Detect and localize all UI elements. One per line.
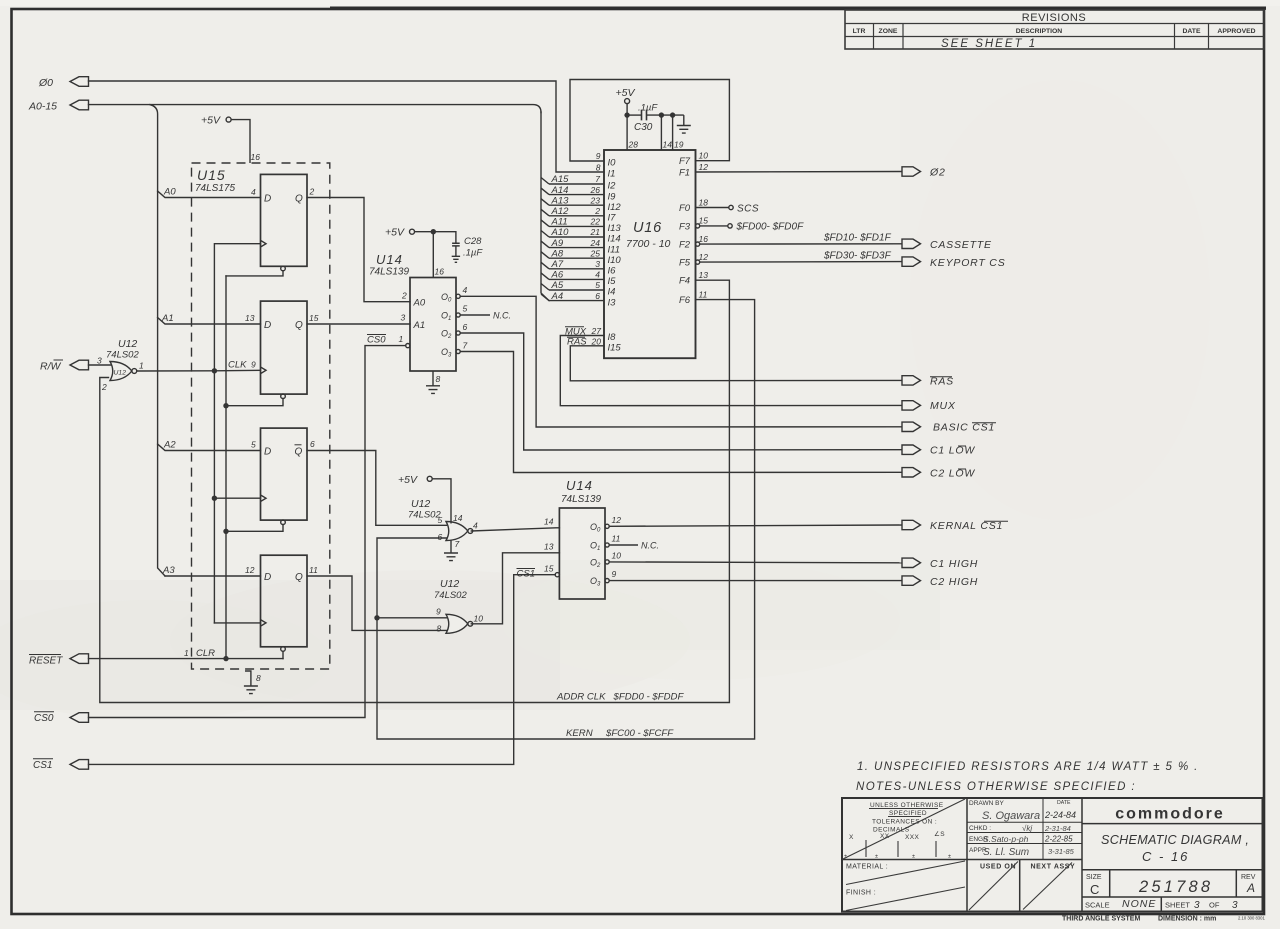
svg-text:KERN $FC00 - $FCFF: KERN $FC00 - $FCFF: [566, 728, 674, 739]
decoder U14b 74LS139: [544, 478, 621, 599]
wire FF2 clear: [226, 399, 283, 406]
svg-text:FINISH :: FINISH :: [846, 890, 876, 897]
svg-text:7700 - 10: 7700 - 10: [626, 238, 671, 250]
svg-text:DRAWN BY: DRAWN BY: [969, 800, 1004, 807]
third angle note: [1062, 916, 1265, 923]
svg-text:16: 16: [251, 152, 261, 162]
connector C1 HIGH output: [902, 558, 978, 570]
svg-text:LTR: LTR: [853, 28, 866, 35]
svg-text:7: 7: [463, 341, 468, 351]
U14b O1 N.C. stub: [609, 541, 659, 551]
svg-text:A12: A12: [551, 206, 570, 217]
svg-text:I7: I7: [608, 213, 617, 224]
svg-text:.1µF: .1µF: [638, 103, 658, 114]
svg-text:74LS02: 74LS02: [106, 350, 139, 361]
wire U14b O0 to KERNAL CS: [609, 525, 902, 526]
svg-text:+5V: +5V: [398, 474, 418, 486]
U15 CLR pin 1 label: [184, 648, 215, 659]
wire RESET to CLR: [89, 658, 284, 660]
svg-text:A15: A15: [551, 174, 570, 185]
svg-text:C30: C30: [634, 122, 653, 133]
svg-text:2: 2: [594, 206, 600, 216]
svg-text:BASIC CS1: BASIC CS1: [933, 422, 995, 434]
svg-text:I6: I6: [608, 266, 617, 277]
label R/W: [40, 360, 63, 373]
wire gate1 out to U14b pin14: [471, 528, 559, 531]
wire FF1 Q to U14a A0: [307, 198, 410, 302]
connector CS1 input: [70, 760, 89, 770]
flip-flop U15c: [251, 428, 315, 524]
svg-text:13: 13: [245, 313, 255, 323]
svg-text:25: 25: [590, 248, 601, 258]
svg-text:9: 9: [612, 569, 617, 579]
svg-text:A3: A3: [162, 565, 175, 576]
svg-text:CASSETTE: CASSETTE: [930, 239, 992, 251]
tolerance block: [842, 799, 965, 911]
svg-text:$FD10- $FD1F: $FD10- $FD1F: [823, 233, 892, 244]
svg-text:I9: I9: [608, 191, 617, 202]
wire A0-15 bus horizontal: [89, 105, 542, 113]
svg-text:N.C.: N.C.: [641, 541, 659, 551]
svg-text:F7: F7: [679, 156, 691, 167]
connector RAS output: [902, 376, 954, 388]
svg-text:8: 8: [436, 374, 441, 384]
svg-text:F2: F2: [679, 240, 691, 251]
svg-text:A10: A10: [551, 227, 570, 238]
label RESET: [29, 655, 63, 667]
svg-text:U14: U14: [566, 478, 593, 493]
svg-text:DATE: DATE: [1183, 28, 1201, 35]
svg-text:SCS: SCS: [737, 204, 759, 215]
svg-text:74LS02: 74LS02: [434, 590, 467, 601]
svg-text:THIRD ANGLE SYSTEM: THIRD ANGLE SYSTEM: [1062, 916, 1140, 923]
svg-text:A: A: [1246, 881, 1255, 895]
svg-text:S.Sato-p-ph: S.Sato-p-ph: [983, 834, 1029, 844]
svg-text:6: 6: [463, 322, 468, 332]
svg-text:D: D: [264, 320, 271, 331]
decoder U14a 74LS139: [369, 252, 468, 384]
svg-text:SCHEMATIC DIAGRAM ,: SCHEMATIC DIAGRAM ,: [1101, 833, 1249, 847]
U16 RAS input pin 20: [567, 336, 601, 347]
svg-text:F4: F4: [679, 276, 690, 287]
wire CS1 to U14b pin15: [89, 575, 556, 765]
U15 ground pin 8: [244, 671, 261, 694]
svg-text:±: ±: [912, 854, 915, 860]
svg-text:C28: C28: [464, 236, 482, 247]
svg-text:C1 LOW: C1 LOW: [930, 445, 975, 457]
svg-text:13: 13: [699, 270, 709, 280]
svg-text:±: ±: [875, 854, 878, 860]
svg-text:5: 5: [251, 440, 256, 450]
svg-text:R/W: R/W: [40, 361, 62, 373]
wire F2 to CASSETTE: [700, 243, 902, 245]
svg-text:F6: F6: [679, 295, 691, 306]
svg-text:2-22-85: 2-22-85: [1044, 835, 1073, 844]
svg-text:SIZE: SIZE: [1086, 874, 1102, 881]
IC U16 7700-10: [596, 150, 708, 358]
svg-text:11: 11: [309, 565, 318, 575]
label CS1: [33, 759, 53, 771]
svg-text:21: 21: [590, 227, 601, 237]
U14a CS0 enable label: [367, 335, 386, 346]
wire R/W to gate0 in3: [89, 364, 112, 366]
svg-text:MUX: MUX: [930, 400, 956, 412]
connector R/W input: [70, 360, 89, 370]
svg-text:A0-15: A0-15: [28, 101, 57, 113]
wire gate2 out to U14b pin13: [471, 553, 559, 624]
wire RAS net: [570, 346, 902, 381]
U12b +5V pin 14: [398, 474, 451, 524]
svg-text:CHKD :: CHKD :: [969, 825, 991, 832]
U16 MUX input pin 27: [565, 326, 601, 337]
svg-text:KEYPORT CS: KEYPORT CS: [930, 257, 1006, 269]
svg-text:9: 9: [436, 607, 441, 617]
connector PHI0 input: [70, 77, 89, 87]
svg-text:DIMENSION : mm: DIMENSION : mm: [1158, 916, 1216, 923]
svg-text:RAS: RAS: [930, 376, 954, 388]
svg-text:4: 4: [251, 187, 256, 197]
svg-text:C - 16: C - 16: [1142, 849, 1189, 864]
svg-text:5: 5: [595, 280, 600, 290]
svg-text:15: 15: [544, 564, 554, 574]
svg-text:28: 28: [628, 140, 639, 150]
svg-text:XXX: XXX: [905, 834, 919, 841]
svg-text:2: 2: [101, 382, 107, 392]
svg-text:commodore: commodore: [1115, 806, 1225, 823]
wire U14a O2 to C1 LOW: [460, 333, 902, 450]
svg-text:CS0: CS0: [367, 335, 386, 346]
svg-text:I13: I13: [608, 223, 622, 234]
svg-text:12: 12: [699, 252, 709, 262]
U14a +5V pin 16: [385, 227, 436, 278]
svg-text:10: 10: [612, 551, 622, 561]
wire FF1 clear: [226, 271, 283, 276]
svg-text:A8: A8: [551, 248, 564, 259]
svg-text:+5V: +5V: [385, 227, 405, 239]
wire ADDR CLK F4 loop: [100, 280, 730, 702]
svg-text:8: 8: [596, 162, 601, 172]
svg-text:9: 9: [251, 360, 256, 370]
svg-text:A13: A13: [551, 195, 570, 206]
svg-text:12: 12: [612, 515, 622, 525]
svg-text:CLR: CLR: [196, 648, 215, 659]
svg-text:74LS139: 74LS139: [369, 267, 409, 278]
svg-text:74LS175: 74LS175: [195, 183, 235, 194]
svg-text:CS1: CS1: [517, 569, 535, 580]
wire bus vertical A15-A4: [541, 112, 549, 301]
svg-text:A14: A14: [551, 185, 569, 196]
svg-text:S. Ll. Sum: S. Ll. Sum: [983, 847, 1029, 858]
svg-text:2-24-84: 2-24-84: [1044, 810, 1076, 820]
svg-text:I4: I4: [608, 287, 616, 298]
svg-text:NEXT ASSY: NEXT ASSY: [1031, 864, 1076, 871]
svg-text:251788: 251788: [1138, 878, 1213, 896]
svg-text:1: 1: [139, 361, 144, 371]
svg-text:19: 19: [674, 140, 684, 150]
svg-text:27: 27: [591, 326, 602, 336]
svg-text:A0: A0: [413, 298, 426, 309]
svg-text:D: D: [264, 447, 271, 458]
svg-text:REVISIONS: REVISIONS: [1022, 12, 1086, 24]
wire FF2 Q to U14a A1: [307, 323, 410, 325]
flip-flop U15d: [245, 555, 318, 651]
wire KERN branch to gate2 pin9: [374, 615, 446, 620]
U14a O1 N.C. stub: [460, 311, 511, 321]
svg-text:±: ±: [948, 854, 951, 860]
svg-text:5: 5: [463, 304, 468, 314]
svg-text:A6: A6: [551, 270, 564, 281]
svg-text:14: 14: [544, 517, 554, 527]
svg-text:I10: I10: [608, 255, 622, 266]
NOR gate U12b: [408, 498, 478, 549]
wire gate0 out CLK line: [137, 368, 261, 373]
svg-text:C2 LOW: C2 LOW: [930, 468, 975, 480]
svg-text:CS1: CS1: [33, 760, 52, 771]
wire FF4 Q to gate2 in8: [307, 576, 447, 630]
wire FF4 clear: [282, 651, 284, 658]
svg-text:A2: A2: [163, 440, 176, 451]
svg-text:I12: I12: [608, 202, 622, 213]
svg-text:I1: I1: [608, 169, 616, 180]
svg-text:F5: F5: [679, 258, 691, 269]
wire A3 tap to U15: [165, 575, 261, 577]
svg-text:I0: I0: [608, 158, 617, 169]
svg-text:REV: REV: [1241, 874, 1256, 881]
svg-text:APPROVED: APPROVED: [1217, 28, 1255, 35]
svg-text:Q: Q: [295, 320, 303, 331]
svg-text:4: 4: [595, 270, 600, 280]
svg-text:2-31-84: 2-31-84: [1044, 824, 1071, 833]
svg-text:16: 16: [435, 267, 445, 277]
svg-text:F1: F1: [679, 168, 690, 179]
svg-text:10: 10: [699, 151, 709, 161]
svg-text:UNLESS OTHERWISE: UNLESS OTHERWISE: [870, 802, 944, 809]
connector A0-15 input: [70, 100, 89, 110]
svg-text:I5: I5: [608, 276, 617, 287]
svg-text:12: 12: [245, 565, 255, 575]
svg-text:F3: F3: [679, 221, 691, 232]
svg-text:1. UNSPECIFIED RESISTORS: 1. UNSPECIFIED RESISTORS ARE 1/4 WATT ± …: [857, 761, 1199, 773]
svg-text:4: 4: [473, 521, 478, 531]
svg-text:NOTES-UNLESS OTHERWISE S: NOTES-UNLESS OTHERWISE SPECIFIED :: [856, 781, 1136, 793]
capacitor C28 .1uF: [433, 232, 483, 263]
U16 pin 14 bypass wire: [659, 112, 673, 150]
U14b CS1 enable label: [517, 569, 536, 580]
wire A2 tap to U15: [158, 444, 261, 451]
svg-text:U16: U16: [633, 220, 662, 236]
revisions table text: [853, 12, 1256, 50]
connector CASSETTE output: [902, 239, 992, 251]
svg-text:±: ±: [844, 854, 847, 860]
svg-text:.1µF: .1µF: [463, 248, 483, 259]
svg-text:6: 6: [310, 439, 315, 449]
wire MUX net: [560, 336, 902, 406]
wire U14b O3 to C2 HIGH: [609, 580, 902, 582]
svg-text:74LS02: 74LS02: [408, 510, 441, 521]
wire U14a O3 to C2 LOW: [460, 352, 902, 473]
svg-text:D: D: [264, 572, 271, 583]
svg-text:23: 23: [590, 195, 601, 205]
svg-text:XX: XX: [880, 833, 890, 840]
svg-text:I11: I11: [608, 244, 621, 255]
svg-text:A11: A11: [551, 217, 568, 228]
svg-text:13: 13: [544, 542, 554, 552]
wire FF3 Qbar to gate1 in5: [307, 451, 447, 526]
svg-text:N.C.: N.C.: [493, 311, 511, 321]
svg-text:ADDR CLK $FDD0 - $FDDF: ADDR CLK $FDD0 - $FDDF: [556, 691, 684, 702]
svg-text:U12: U12: [118, 338, 137, 350]
wire CLR vertical: [223, 276, 228, 661]
svg-text:U12: U12: [411, 498, 430, 510]
net SCS: [696, 204, 760, 215]
svg-text:I3: I3: [608, 297, 617, 308]
NOR gate U12a: [97, 338, 144, 392]
svg-text:A4: A4: [551, 291, 564, 302]
svg-text:C1 HIGH: C1 HIGH: [930, 558, 978, 570]
svg-text:Q: Q: [295, 572, 303, 583]
connector C2 LOW output: [902, 468, 975, 480]
svg-text:U15: U15: [197, 167, 226, 183]
U16 address input rows A15-A4: [541, 174, 604, 185]
svg-text:I2: I2: [608, 181, 617, 192]
svg-text:8: 8: [437, 624, 442, 634]
U16 +5V: [616, 87, 639, 150]
svg-text:14: 14: [663, 140, 673, 150]
svg-text:I15: I15: [608, 342, 622, 353]
net $FD00-$FD0F: [700, 222, 804, 233]
svg-text:A1: A1: [413, 320, 426, 331]
svg-text:6: 6: [595, 291, 600, 301]
NOR gate U12c: [434, 578, 483, 634]
svg-text:U14: U14: [376, 252, 403, 267]
svg-text:18: 18: [699, 197, 709, 207]
svg-text:MATERIAL :: MATERIAL :: [846, 864, 888, 871]
connector MUX output: [902, 400, 956, 412]
U12b ground pin 7: [444, 541, 458, 561]
svg-text:D: D: [264, 194, 271, 205]
svg-text:7: 7: [595, 174, 600, 184]
svg-text:2: 2: [309, 187, 315, 197]
svg-text:15: 15: [309, 313, 319, 323]
svg-text:KERNAL CS1: KERNAL CS1: [930, 520, 1003, 532]
svg-text:A1: A1: [161, 313, 174, 324]
title block frame: [842, 798, 1263, 912]
U15 74LS175 dashed package box: [192, 163, 330, 669]
svg-text:2: 2: [401, 291, 407, 301]
svg-text:$FD00- $FD0F: $FD00- $FD0F: [736, 222, 805, 233]
connector C1 LOW output: [902, 445, 975, 457]
wire KERN F6 loop: [377, 300, 755, 739]
U15 +5V pin 16: [201, 115, 260, 164]
svg-text:3: 3: [401, 313, 406, 323]
wire F5 to KEYPORT: [700, 261, 902, 264]
svg-text:26: 26: [590, 185, 601, 195]
U16 pin 19 bypass wire: [670, 112, 684, 150]
svg-text:SCALE: SCALE: [1085, 901, 1110, 910]
connector RESET input: [70, 654, 89, 664]
wire U14a O0 to BASIC CS: [460, 296, 902, 427]
svg-text:DATE: DATE: [1057, 800, 1071, 806]
svg-text:15: 15: [699, 216, 709, 226]
svg-text:RESET: RESET: [29, 656, 63, 667]
label CS0: [34, 712, 54, 724]
wire A0 tap to U15: [158, 191, 261, 198]
svg-text:+5V: +5V: [201, 115, 221, 127]
wire FF3 clear: [226, 525, 283, 532]
svg-text:A9: A9: [551, 238, 564, 249]
wire bus vertical A0-A3: [150, 105, 165, 576]
title text: [1101, 833, 1249, 864]
wire U14b O2 to C1 HIGH: [609, 561, 902, 564]
svg-text:+5V: +5V: [616, 87, 636, 99]
svg-text:SHEET: SHEET: [1165, 901, 1190, 910]
connector CS0 input: [70, 713, 89, 723]
svg-text:CS0: CS0: [34, 713, 54, 724]
svg-text:SEE SHEET 1: SEE SHEET 1: [941, 38, 1037, 50]
net label overlines: [930, 377, 1008, 522]
revisions table: [845, 10, 1264, 49]
svg-text:6: 6: [438, 532, 443, 542]
C30 ground: [677, 115, 691, 133]
svg-text:NONE: NONE: [1122, 898, 1156, 910]
svg-text:OF: OF: [1209, 901, 1220, 910]
svg-text:4: 4: [463, 285, 468, 295]
connector PHI2 output: [902, 167, 946, 179]
svg-text:DECIMALS: DECIMALS: [873, 827, 910, 834]
wire CLK vertical: [212, 244, 261, 623]
svg-text:F0: F0: [679, 203, 691, 214]
svg-text:U12: U12: [440, 578, 459, 590]
svg-text:2.10 300 8301: 2.10 300 8301: [1238, 916, 1265, 921]
svg-text:√kj: √kj: [1022, 824, 1032, 833]
svg-text:CLK: CLK: [228, 360, 247, 371]
wire F7 loop to U16 pin 9: [570, 80, 729, 162]
svg-text:SPECIFIED: SPECIFIED: [889, 810, 927, 817]
svg-text:$FD30- $FD3F: $FD30- $FD3F: [823, 250, 892, 261]
connector KEYPORT CS output: [902, 257, 1006, 269]
svg-text:RAS: RAS: [567, 337, 587, 348]
svg-text:74LS139: 74LS139: [561, 494, 601, 505]
svg-text:C: C: [1090, 882, 1099, 897]
wire CLK to FF4: [214, 622, 260, 624]
svg-text:20: 20: [591, 336, 602, 346]
svg-text:∠S: ∠S: [934, 830, 945, 838]
svg-text:11: 11: [699, 289, 708, 299]
svg-text:3: 3: [1194, 900, 1200, 911]
svg-text:Ø2: Ø2: [929, 167, 946, 179]
svg-text:ZONE: ZONE: [879, 28, 898, 35]
svg-text:22: 22: [590, 217, 601, 227]
flip-flop U15b: [228, 301, 319, 399]
svg-text:S. Ogawara: S. Ogawara: [982, 810, 1040, 822]
connector KERNAL CS1 output: [902, 520, 1003, 532]
svg-text:3: 3: [1232, 900, 1238, 911]
svg-text:8: 8: [256, 673, 261, 683]
svg-text:1: 1: [184, 648, 189, 658]
size / drawing number / rev: [1085, 874, 1256, 911]
svg-text:9: 9: [596, 151, 601, 161]
svg-text:7: 7: [455, 539, 460, 549]
flip-flop U15a: [251, 174, 315, 270]
svg-text:A7: A7: [551, 259, 564, 270]
svg-text:A0: A0: [163, 187, 176, 198]
wire CLK to FF3: [214, 497, 260, 499]
wire CS0 to U14a pin1: [89, 346, 406, 718]
svg-text:12: 12: [699, 162, 709, 172]
svg-text:X: X: [849, 834, 854, 841]
svg-text:I14: I14: [608, 234, 621, 245]
svg-text:U12: U12: [114, 370, 127, 377]
